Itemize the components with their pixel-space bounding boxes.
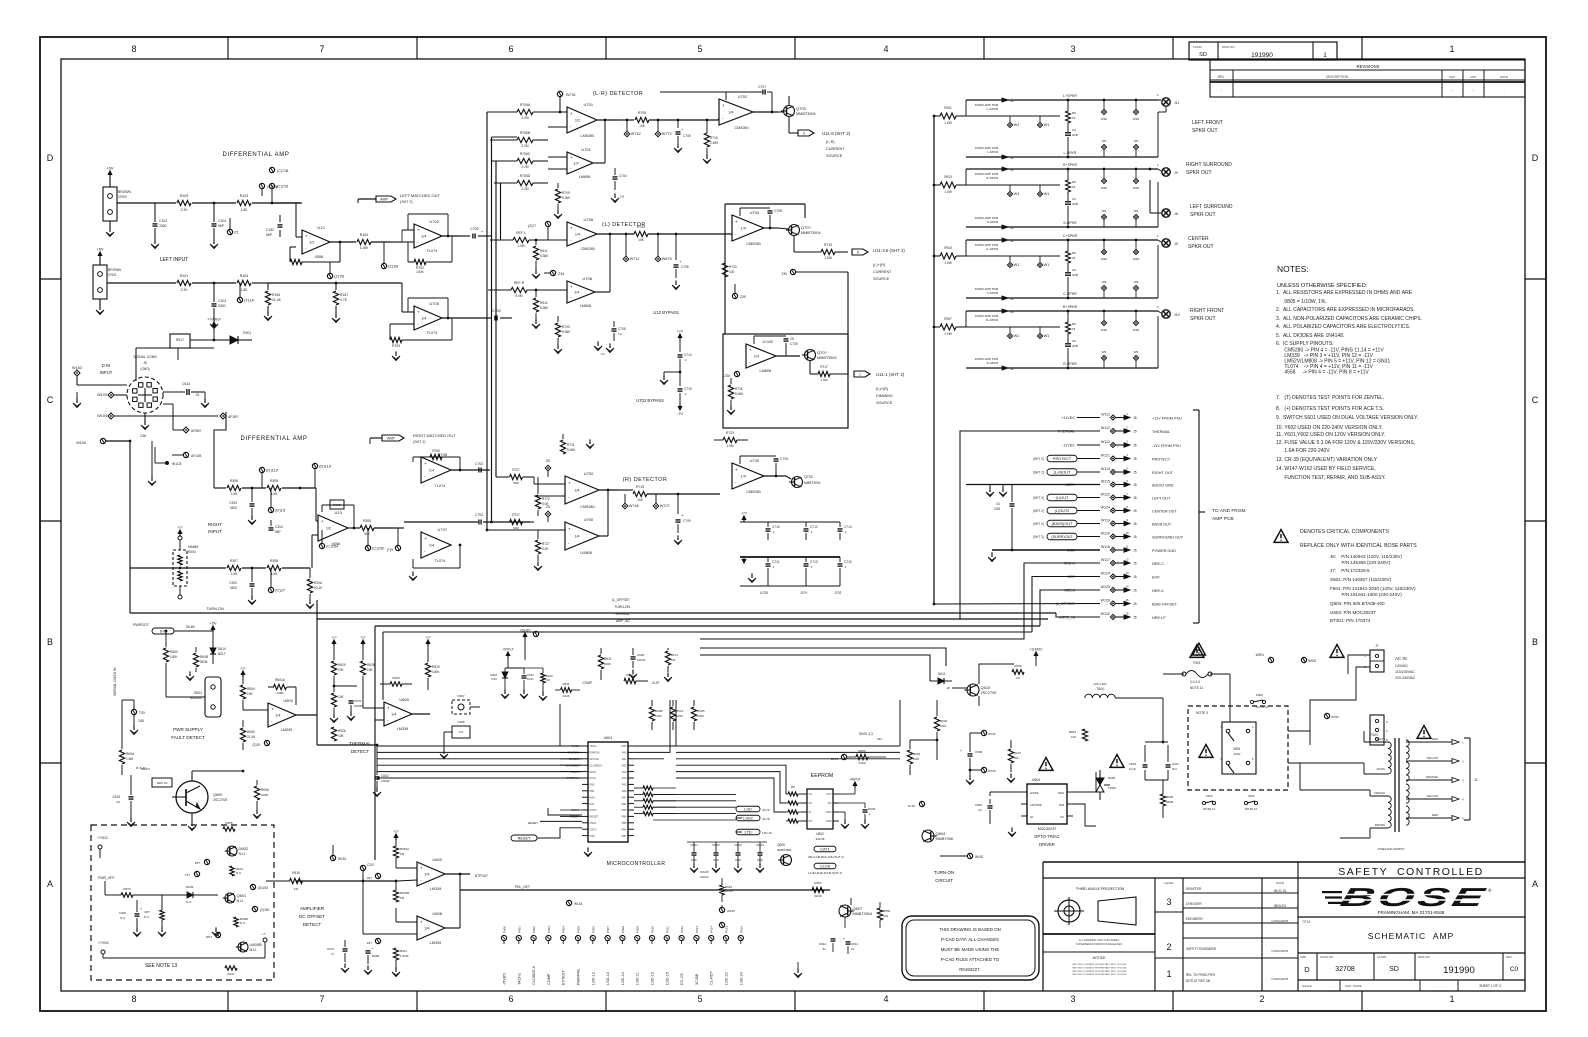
primary wires: [1364, 741, 1388, 743]
svg-text:SCHEMATIC AMP: SCHEMATIC AMP: [1368, 931, 1455, 941]
svg-text:D665: D665: [372, 954, 380, 958]
svg-text:.2F: .2F: [946, 686, 951, 690]
svg-text:+: +: [570, 284, 573, 289]
svg-text:6: 6: [508, 44, 513, 54]
svg-text:R626: R626: [1166, 795, 1174, 799]
svg-text:(L-R): (L-R): [826, 140, 835, 144]
svg-text:1.0W: 1.0W: [944, 190, 951, 194]
svg-text:CONCURNT: CONCURNT: [1271, 919, 1288, 923]
svg-text:1/4: 1/4: [741, 227, 746, 231]
svg-text:W125: W125: [1101, 585, 1110, 589]
svg-text:W9: W9: [1134, 280, 1139, 284]
test point W750: [1324, 713, 1329, 718]
svg-text:R304: R304: [188, 550, 196, 554]
test points W742 W743: [981, 730, 986, 735]
svg-text:PROTECT: PROTECT: [1152, 457, 1171, 461]
svg-text:.1: .1: [684, 358, 687, 362]
svg-text:12. FUSE VALUE 5 3.0A FOR 120V: 12. FUSE VALUE 5 3.0A FOR 120V & 115V/23…: [1276, 440, 1415, 446]
svg-text:5.0K: 5.0K: [542, 547, 549, 551]
bottom wire: [102, 954, 104, 958]
svg-text:R6?: R6?: [144, 910, 150, 914]
svg-text:TL074: TL074: [427, 249, 438, 253]
svg-text:6: 6: [857, 251, 859, 255]
svg-text:SPKR OUT: SPKR OUT: [1190, 212, 1216, 218]
svg-text:(L_OFFSET: (L_OFFSET: [1056, 602, 1076, 606]
svg-text:AF0B?: AF0B?: [191, 429, 201, 433]
svg-text:C705: C705: [790, 342, 798, 346]
svg-text:25V: 25V: [877, 737, 882, 741]
svg-text:SD: SD: [1389, 966, 1399, 973]
svg-text:Z5: Z5: [546, 459, 550, 463]
svg-text:R104: R104: [240, 274, 249, 278]
svg-text:W122: W122: [1101, 493, 1110, 497]
svg-text:U600: U600: [399, 697, 409, 702]
svg-text:C104: C104: [218, 219, 226, 223]
svg-text:R937: R937: [944, 317, 952, 321]
svg-text:R60B: R60B: [655, 709, 663, 713]
diode D607: [452, 700, 470, 714]
op-amp U708B: [567, 281, 595, 303]
svg-text:LSD2: LSD2: [743, 817, 753, 821]
DIN connector J5 shell: [127, 377, 163, 413]
svg-text:PB7: PB7: [622, 834, 627, 838]
svg-text:08/01/01: 08/01/01: [1274, 904, 1287, 908]
op-amp U600C: [384, 702, 412, 726]
svg-text:CLOSEDA: CLOSEDA: [590, 763, 603, 767]
op-amp U13: [318, 515, 348, 541]
svg-text:S-SPKR: S-SPKR: [987, 220, 999, 224]
svg-text:INPUT: INPUT: [208, 529, 222, 534]
svg-text:J5: J5: [1133, 471, 1137, 475]
svg-text:RS17: RS17: [176, 338, 184, 342]
svg-text:R106: R106: [272, 293, 280, 297]
svg-text:100K: 100K: [416, 270, 424, 274]
capacitor C602: [375, 776, 380, 778]
connector J7 upper: [1370, 650, 1384, 672]
svg-text:+1?: +1?: [360, 636, 366, 640]
inductor T604: [1085, 694, 1115, 698]
svg-text:3: 3: [803, 132, 805, 136]
svg-text:W1: W1: [1044, 123, 1050, 127]
svg-text:REV: REV: [1506, 955, 1512, 959]
svg-text:DI: DI: [809, 810, 812, 814]
svg-text:Y602: Y602: [1205, 794, 1212, 798]
wire turn-on down: [936, 740, 938, 760]
svg-text:DB01: DB01: [194, 691, 202, 695]
svg-text:-7V: -7V: [677, 411, 684, 416]
resistor R9xx vertical: [1066, 180, 1071, 192]
svg-text:Y603: Y603: [1247, 794, 1254, 798]
diamond test points upper: [1007, 333, 1012, 338]
svg-text:R628: R628: [367, 663, 375, 667]
svg-text:LSD-10: LSD-10: [606, 972, 610, 985]
speaker section left bus: [933, 116, 935, 604]
svg-text:SOURCE: SOURCE: [873, 277, 890, 281]
resistor R703B 5.36K: [555, 323, 560, 337]
wire bottom rail: [460, 889, 830, 891]
capacitor C715B: [839, 557, 841, 562]
svg-text:10K: 10K: [338, 734, 345, 738]
svg-text:DC OFFSET: DC OFFSET: [299, 914, 325, 919]
svg-text:LM808: LM808: [579, 175, 591, 179]
svg-text:PA5: PA5: [622, 783, 627, 787]
resistor R651B: [393, 890, 398, 902]
arrow +5V: [212, 626, 214, 632]
capacitor C628: [533, 631, 538, 636]
svg-text:RIGHT FRONT: RIGHT FRONT: [1190, 308, 1224, 314]
resistor R309 51K: [360, 525, 374, 530]
svg-text:NOTES:: NOTES:: [1277, 264, 1309, 274]
svg-text:T5?: T5?: [185, 873, 191, 877]
connector pin J6 top: [965, 169, 967, 185]
resistor R654 10K: [240, 685, 245, 699]
svg-text:Z30: Z30: [782, 272, 788, 276]
transistor Q604B: [922, 830, 934, 842]
test point P610 LSD-19: [649, 935, 654, 940]
resistor R9xx vertical: [1066, 111, 1071, 123]
svg-text:D: D: [1304, 965, 1310, 974]
resistor R709 5.36K: [555, 189, 560, 203]
svg-text:RIGHT SURROUND: RIGHT SURROUND: [1186, 162, 1232, 168]
svg-text:R714: R714: [637, 225, 645, 229]
svg-text:R772: R772: [542, 497, 550, 501]
svg-text:U702 BYPASS: U702 BYPASS: [636, 398, 664, 403]
svg-text:U11-8 (SHT 2): U11-8 (SHT 2): [822, 131, 851, 136]
svg-text:MAIN: MAIN: [1058, 792, 1064, 795]
svg-text:13: 13: [851, 947, 855, 951]
wire Z36 drop: [847, 272, 849, 374]
svg-text:R913: R913: [944, 175, 952, 179]
svg-text:13: 13: [1125, 571, 1129, 575]
svg-text:TL074: TL074: [435, 484, 446, 488]
svg-text:W9: W9: [1134, 350, 1139, 354]
svg-text:LEFT SURROUND: LEFT SURROUND: [1190, 204, 1233, 210]
svg-text:RED: RED: [1432, 813, 1438, 817]
svg-text:C720: C720: [780, 457, 788, 461]
relay dashed box NOTE 9: [1188, 706, 1288, 790]
svg-text:LTD: LTD: [745, 831, 752, 835]
fuse F601: [1182, 672, 1186, 676]
test point Z7B: [327, 273, 332, 278]
svg-text:DEGN: DEGN: [141, 767, 150, 771]
svg-text:F601: F601: [1193, 661, 1200, 665]
svg-text:DC-C5: DC-C5: [680, 973, 684, 985]
svg-text:P615: P615: [725, 926, 729, 933]
left input jack CR20: [103, 187, 117, 221]
diode D603: [187, 892, 193, 898]
op-amp U600E: [417, 916, 445, 940]
speaker jack J10 right front: [1162, 310, 1170, 318]
svg-text:10M: 10M: [913, 757, 919, 761]
svg-text:Z35: Z35: [740, 295, 746, 299]
test point C27: [268, 587, 273, 592]
svg-text:U703: U703: [750, 210, 760, 215]
svg-text:NOTE 11: NOTE 11: [1203, 807, 1216, 811]
input resistor R706C 2.2M: [517, 158, 533, 163]
svg-text:1/2: 1/2: [575, 119, 580, 123]
svg-text:J6: J6: [1010, 156, 1014, 160]
svg-text:DETECT: DETECT: [351, 749, 370, 754]
svg-text:C68: C68: [138, 719, 144, 723]
svg-text:21.4K: 21.4K: [247, 735, 256, 739]
svg-text:U.002: U.002: [763, 339, 774, 344]
svg-text:APP: APP: [1470, 75, 1476, 79]
svg-text:49.9K: 49.9K: [814, 894, 822, 898]
connector pin J6 top: [965, 311, 967, 327]
svg-text:6. IC SUPPLY PINOUTS:: 6. IC SUPPLY PINOUTS:: [1276, 341, 1334, 347]
test point AF10B diamond: [220, 413, 226, 419]
svg-text:2.2M: 2.2M: [521, 165, 528, 169]
svg-text:SIGNAL CONN: SIGNAL CONN: [133, 355, 157, 359]
svg-text:R717: R717: [820, 365, 828, 369]
diamond test points right lower: [1101, 355, 1106, 360]
svg-text:1.0M: 1.0M: [726, 444, 733, 448]
svg-text:W501: W501: [1256, 653, 1265, 657]
svg-text:Q607: Q607: [853, 906, 864, 911]
svg-text:+1?: +1?: [425, 636, 431, 640]
diamond Z56: [545, 511, 551, 517]
svg-text:REF-R: REF-R: [514, 281, 525, 285]
svg-text:BROWN: BROWN: [1375, 823, 1385, 827]
svg-text:R655: R655: [225, 821, 233, 825]
svg-text:Z5: Z5: [546, 505, 550, 509]
svg-text:RA1: RA1: [590, 802, 596, 806]
svg-text:R651A: R651A: [400, 847, 409, 851]
svg-text:2: 2: [1166, 942, 1171, 952]
svg-text:AC IN: AC IN: [1395, 656, 1407, 661]
svg-text:C619: C619: [1129, 762, 1137, 766]
svg-text:SPKR OUT: SPKR OUT: [1188, 244, 1214, 250]
feedback box U706: [412, 457, 414, 462]
svg-text:U11-3,6 (SHT 2): U11-3,6 (SHT 2): [873, 248, 905, 253]
test point diamond W772: [655, 131, 661, 137]
svg-text:(SHT 2): (SHT 2): [1033, 471, 1044, 475]
svg-text:N.U.: N.U.: [237, 899, 245, 903]
svg-text:W743: W743: [988, 769, 996, 773]
test point W103: [108, 392, 114, 398]
svg-text:NRE-LF: NRE-LF: [1152, 616, 1166, 620]
thermistor C665: [452, 726, 470, 738]
svg-text:NOTE 10: NOTE 10: [1245, 807, 1258, 811]
svg-text:P-CAD FILES ATTACHED TO: P-CAD FILES ATTACHED TO: [941, 957, 1000, 962]
svg-text:W9: W9: [1102, 350, 1107, 354]
eeprom IC U602: [807, 789, 833, 829]
svg-text:Q703: Q703: [796, 106, 807, 111]
resistor R671 1M: [665, 651, 670, 665]
svg-text:1/4: 1/4: [391, 713, 396, 717]
capacitor C705B: [739, 208, 741, 216]
test point P602 CLOSED A: [531, 935, 536, 940]
svg-text:W93: W93: [1133, 257, 1140, 261]
svg-text:R727: R727: [512, 513, 520, 517]
svg-text:Q70?: Q70?: [817, 350, 828, 355]
svg-text:10K: 10K: [639, 124, 646, 128]
svg-text:C642: C642: [819, 942, 827, 946]
test point Z173: [841, 754, 846, 759]
capacitor C705 electrolytic: [677, 120, 679, 128]
svg-text:1.5K: 1.5K: [241, 288, 249, 292]
svg-text:C714: C714: [844, 525, 852, 529]
svg-text:DESCRIPTION: DESCRIPTION: [1326, 75, 1348, 79]
svg-text:CLOSED A: CLOSED A: [532, 966, 536, 985]
svg-text:(SHT 2): (SHT 2): [1033, 535, 1044, 539]
svg-text:BIAS-OFFSET: BIAS-OFFSET: [1152, 602, 1178, 606]
svg-text:C66: C66: [140, 434, 146, 438]
svg-text:Q604: Q604: [936, 831, 947, 836]
diamond test points right lower: [1101, 214, 1106, 219]
resistor R167: [335, 283, 337, 290]
svg-text:SHEET 1 OF 3: SHEET 1 OF 3: [1479, 984, 1500, 988]
capacitor C713: [805, 557, 807, 562]
wire: [252, 282, 268, 284]
svg-text:U608: U608: [432, 911, 442, 916]
svg-text:J5: J5: [1133, 522, 1137, 526]
arrow +INPUT: [854, 782, 856, 788]
svg-text:THIS DRAWING IS BASED ON: THIS DRAWING IS BASED ON: [939, 927, 1001, 932]
diamond test points right upper: [1101, 109, 1106, 114]
diode D901: [214, 339, 230, 341]
svg-text:T601: T601: [1371, 733, 1378, 737]
svg-text:W727: W727: [660, 504, 670, 508]
svg-text:BROWN: BROWN: [118, 190, 132, 194]
svg-text:J10: J10: [1174, 313, 1180, 317]
net arrows top of micro: [524, 633, 526, 639]
svg-text:CATHODE: CATHODE: [1030, 804, 1042, 807]
resistor R772 5.0K vertical: [535, 495, 540, 509]
svg-text:P605: P605: [577, 926, 581, 933]
svg-text:R60B: R60B: [200, 655, 208, 659]
svg-text:R931: R931: [944, 106, 952, 110]
svg-text:CHECKER: CHECKER: [1186, 902, 1202, 906]
svg-text:5.36K: 5.36K: [540, 306, 549, 310]
resistor R526 10K: [331, 727, 336, 741]
svg-text:BOSE: BOSE: [1338, 882, 1491, 912]
wire DIN outputs: [163, 403, 173, 405]
svg-text:P612: P612: [680, 926, 684, 933]
svg-text:(D)119: (D)119: [319, 464, 332, 469]
svg-text:R703: R703: [392, 344, 400, 348]
test point D15: [268, 507, 273, 512]
resistor R721 5.06K: [560, 440, 565, 454]
svg-text:J1: J1: [1474, 778, 1478, 782]
secondary output wires: [1406, 741, 1452, 743]
svg-text:CURRENT: CURRENT: [826, 147, 845, 151]
capacitor C300: [136, 900, 138, 912]
feedback wire: [407, 298, 409, 312]
svg-text:W772: W772: [662, 132, 672, 136]
svg-text:U12 BYPASS: U12 BYPASS: [653, 310, 678, 315]
svg-text:C707: C707: [758, 85, 766, 89]
svg-text:R727: R727: [542, 542, 550, 546]
resistor R628 10K v: [362, 640, 364, 646]
svg-text:R715: R715: [824, 243, 832, 247]
svg-text:W9: W9: [1134, 139, 1139, 143]
svg-text:Q605: Q605: [777, 843, 785, 847]
bypass cap C714 C715 stack: [679, 334, 681, 340]
svg-text:C300: C300: [119, 911, 127, 915]
svg-text:Q720: Q720: [804, 475, 813, 479]
zener D602: [505, 667, 511, 669]
svg-text:1/4: 1/4: [741, 475, 746, 479]
left wires to bus: [559, 704, 561, 746]
svg-text:4558: 4558: [332, 542, 340, 546]
svg-text:F602: F602: [1256, 693, 1263, 697]
test point T1A: [237, 297, 242, 302]
test point DN: [215, 932, 220, 937]
ground C500: [969, 775, 971, 780]
svg-text:C714: C714: [684, 353, 692, 357]
svg-text:20.1K: 20.1K: [314, 586, 323, 590]
svg-text:3C-BB: 3C-BB: [695, 973, 699, 985]
svg-text:J6: J6: [1010, 226, 1014, 230]
svg-text:DWG NO.: DWG NO.: [1222, 45, 1236, 49]
svg-text:5.06K: 5.06K: [567, 448, 576, 452]
svg-text:55-4B: 55-4B: [186, 625, 195, 629]
svg-text:1/4: 1/4: [728, 111, 733, 115]
svg-text:1/4: 1/4: [429, 469, 434, 473]
svg-text:R100: R100: [180, 194, 189, 198]
svg-text:3: 3: [1166, 897, 1171, 907]
svg-text:LSD-15: LSD-15: [665, 972, 669, 985]
svg-text:CLOS: CLOS: [820, 865, 831, 869]
svg-text:2.49K: 2.49K: [710, 141, 719, 145]
svg-text:PWR SUPPLY: PWR SUPPLY: [173, 727, 203, 732]
svg-text:1/4: 1/4: [575, 233, 580, 237]
svg-text:W1: W1: [1044, 334, 1050, 338]
resistor R727B 50R: [510, 519, 523, 524]
connector pin J6 top: [965, 240, 967, 256]
svg-text:W144: W144: [574, 902, 583, 906]
test point P606 LSD-12: [590, 935, 595, 940]
wire top feedback: [660, 91, 726, 93]
svg-text:WHITE: WHITE: [1377, 767, 1386, 771]
wire: [252, 202, 300, 204]
svg-text:2.2M: 2.2M: [521, 116, 528, 120]
capacitor D630: [864, 803, 866, 808]
svg-text:J5: J5: [1133, 496, 1137, 500]
wire right input top rail: [214, 412, 226, 488]
bypass rail wires: [740, 521, 840, 523]
svg-text:N.U.: N.U.: [144, 915, 150, 919]
op-amp U703: [732, 215, 764, 241]
svg-text:P602: P602: [532, 926, 536, 933]
svg-text:W93: W93: [1133, 328, 1140, 332]
svg-text:R727: R727: [512, 468, 520, 472]
svg-text:R663: R663: [814, 881, 822, 885]
svg-text:ORANGE: ORANGE: [1426, 775, 1438, 779]
resistor R703 100K: [390, 337, 402, 342]
svg-text:100uF: 100uF: [700, 875, 709, 879]
resistor R636 10K: [1012, 670, 1024, 675]
svg-text:J5: J5: [1133, 589, 1137, 593]
svg-text:51K: 51K: [364, 532, 371, 536]
pad +7VREF: [213, 322, 215, 328]
svg-text:W502: W502: [1308, 659, 1317, 663]
svg-text:11: 11: [1126, 545, 1129, 549]
svg-text:5.06K: 5.06K: [735, 392, 744, 396]
svg-text:C706: C706: [681, 265, 689, 269]
svg-text:Z36: Z36: [724, 374, 730, 378]
svg-text:(SHT 2): (SHT 2): [1033, 496, 1044, 500]
svg-text:ALL DRAWING INFO THIS SHEET: ALL DRAWING INFO THIS SHEET: [1079, 938, 1120, 942]
svg-text:W104: W104: [97, 414, 107, 418]
svg-text:2K: 2K: [1016, 676, 1020, 680]
svg-text:J6: J6: [1010, 297, 1014, 301]
svg-text:10K: 10K: [367, 668, 374, 672]
svg-text:NRE-3: NRE-3: [1152, 589, 1163, 593]
wire speaker rail C-SPKR: [966, 297, 1102, 299]
svg-text:15: 15: [1072, 185, 1076, 189]
